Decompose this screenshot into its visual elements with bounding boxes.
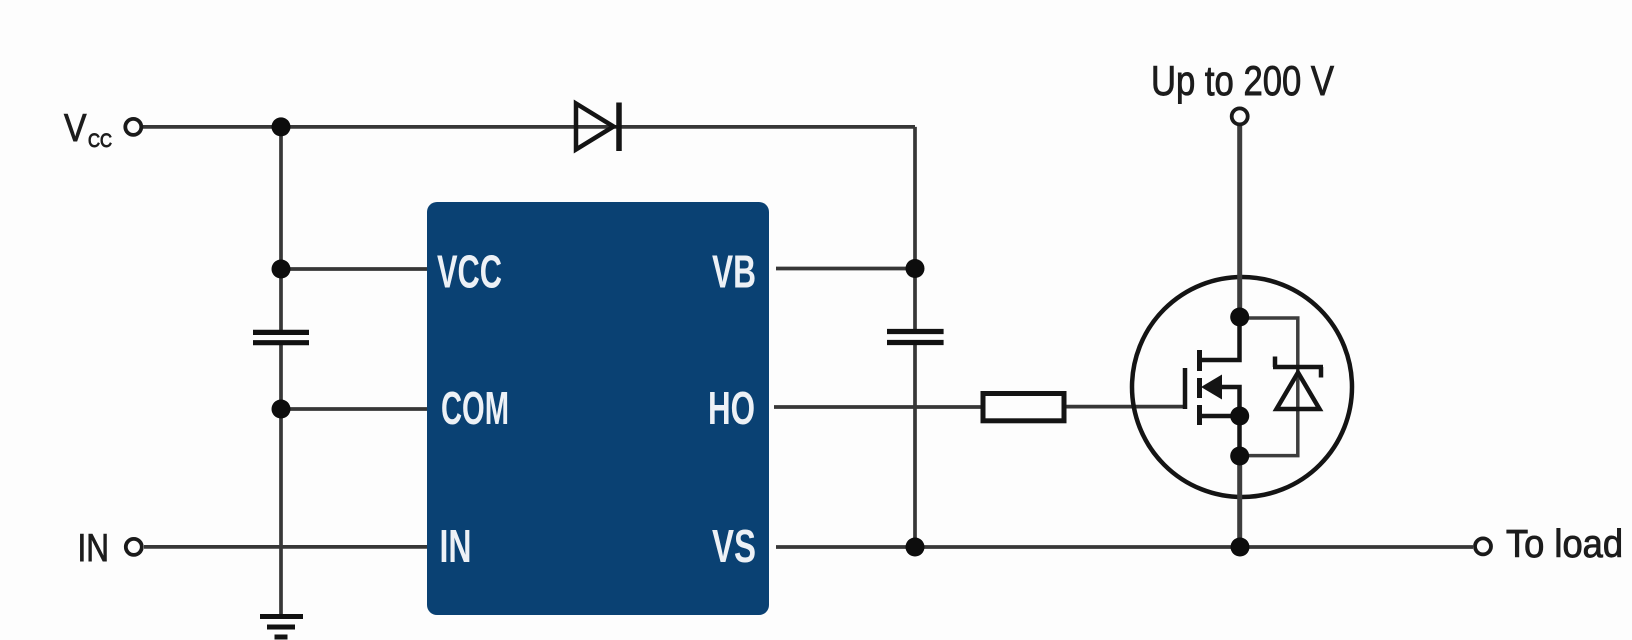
svg-text:CC: CC: [88, 131, 112, 152]
svg-text:V: V: [64, 107, 87, 150]
svg-text:IN: IN: [78, 527, 110, 570]
svg-text:IN: IN: [440, 520, 472, 572]
svg-text:HO: HO: [708, 382, 755, 434]
svg-text:VS: VS: [712, 520, 756, 572]
svg-text:VB: VB: [712, 246, 756, 298]
svg-text:COM: COM: [441, 382, 509, 434]
svg-text:To load: To load: [1506, 523, 1623, 566]
svg-text:VCC: VCC: [437, 246, 502, 298]
svg-text:Up to 200 V: Up to 200 V: [1151, 57, 1334, 104]
